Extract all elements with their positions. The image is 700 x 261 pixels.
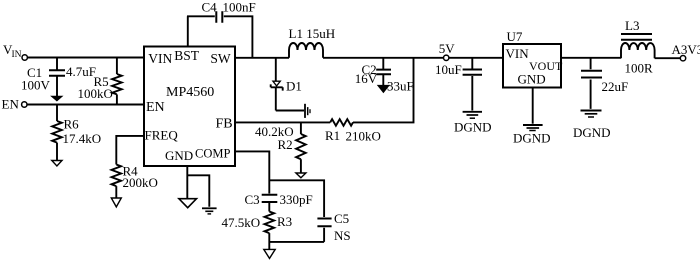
svg-text:L1 15uH: L1 15uH <box>289 26 336 41</box>
svg-text:100kO: 100kO <box>78 86 113 101</box>
ground arrow of R4 <box>111 198 121 207</box>
svg-text:DGND: DGND <box>513 130 551 145</box>
svg-text:33uF: 33uF <box>387 78 414 93</box>
svg-text:C4: C4 <box>202 0 218 15</box>
resistor R5 <box>112 58 122 105</box>
ground arrow of compensation net <box>264 249 275 258</box>
svg-text:100V: 100V <box>21 78 51 93</box>
ground (3-bar) of U7 <box>523 125 543 131</box>
wire R3 bottom <box>268 233 270 249</box>
svg-text:4.7uF: 4.7uF <box>66 64 96 79</box>
svg-text:EN: EN <box>146 100 165 115</box>
wire C4 to SW <box>224 16 253 58</box>
svg-text:SW: SW <box>210 51 231 66</box>
svg-text:DGND: DGND <box>573 125 611 140</box>
capacitor C4 <box>216 11 222 23</box>
wire BST riser <box>187 16 215 46</box>
svg-text:FB: FB <box>216 117 233 132</box>
svg-text:330pF: 330pF <box>280 192 313 207</box>
IC U1 MP4560 <box>144 47 235 167</box>
wire IC GND <box>187 167 209 207</box>
wire SW rail <box>235 57 289 59</box>
wire FB rail <box>235 58 414 123</box>
svg-text:22uF: 22uF <box>602 79 629 94</box>
resistor R4 <box>112 165 122 187</box>
node 5V terminal <box>439 41 456 60</box>
svg-text:L3: L3 <box>625 18 639 33</box>
IC U7 box <box>503 44 561 88</box>
wire R4 bottom <box>115 186 117 197</box>
svg-text:R1: R1 <box>325 128 340 143</box>
svg-text:C5: C5 <box>334 211 349 226</box>
resistor R3 <box>264 212 274 234</box>
svg-text:U7: U7 <box>507 29 523 44</box>
svg-text:100R: 100R <box>625 61 654 76</box>
svg-text:FREQ: FREQ <box>145 128 179 143</box>
svg-text:210kO: 210kO <box>346 128 381 143</box>
ground arrow of C2 <box>378 85 390 92</box>
svg-text:R3: R3 <box>277 214 292 229</box>
ground (3-bar) of 10uF <box>463 112 482 118</box>
svg-text:5V: 5V <box>439 41 456 56</box>
resistor R1 <box>330 119 353 126</box>
svg-text:17.4kO: 17.4kO <box>63 131 102 146</box>
svg-text:MP4560: MP4560 <box>166 85 214 100</box>
ground arrow of R2 <box>296 173 306 178</box>
capacitor C2 <box>376 58 391 86</box>
wire 5V to U7 <box>449 57 503 59</box>
svg-text:R6: R6 <box>64 117 80 132</box>
ground (sideways) of D1 <box>305 104 310 118</box>
ground arrow of R6 <box>52 161 62 167</box>
svg-text:C3: C3 <box>245 192 260 207</box>
node VIN terminal <box>3 42 27 60</box>
wire L3 to A3V3 <box>655 57 681 59</box>
resistor R2 <box>296 122 306 172</box>
node A3V3 terminal <box>672 42 700 61</box>
svg-text:DGND: DGND <box>454 119 492 134</box>
wire VOUT rail <box>561 57 621 59</box>
diode D1 (schottky) <box>271 58 283 111</box>
svg-text:100nF: 100nF <box>223 0 256 15</box>
svg-text:IN: IN <box>12 50 22 60</box>
svg-text:D1: D1 <box>286 79 302 94</box>
ground (3-bar) of IC <box>202 208 217 214</box>
wire FREQ <box>116 136 144 165</box>
inductor L3 (ferrite bead) <box>621 34 655 58</box>
ground (3-bar) of 22uF <box>581 111 602 118</box>
svg-text:BST: BST <box>174 48 200 63</box>
svg-text:GND: GND <box>165 148 193 163</box>
capacitor C3 <box>262 195 278 202</box>
svg-text:R2: R2 <box>278 137 293 152</box>
svg-text:47.5kO: 47.5kO <box>222 215 261 230</box>
svg-text:A3V3: A3V3 <box>672 42 700 57</box>
ground arrow of C1 <box>51 96 62 101</box>
svg-text:EN: EN <box>2 97 20 112</box>
capacitor C1 <box>49 58 65 97</box>
svg-text:COMP: COMP <box>195 147 230 161</box>
svg-text:GND: GND <box>518 71 546 86</box>
svg-text:VIN: VIN <box>148 51 172 66</box>
svg-text:10uF: 10uF <box>435 62 462 77</box>
svg-text:NS: NS <box>334 228 351 243</box>
wire VIN rail <box>28 57 145 59</box>
wire COMP <box>235 151 269 193</box>
capacitor 10uF <box>463 58 482 111</box>
wire EN rail <box>27 104 144 106</box>
capacitor C5 <box>317 219 331 227</box>
wire U7 GND <box>532 88 534 124</box>
node EN terminal <box>2 97 27 112</box>
svg-text:16V: 16V <box>355 71 378 86</box>
svg-text:VIN: VIN <box>506 46 530 61</box>
wire output rail to 5V <box>323 57 443 59</box>
svg-text:200kO: 200kO <box>123 175 158 190</box>
inductor L1 <box>289 43 323 58</box>
resistor R6 <box>52 105 62 161</box>
wire C5 branch <box>269 180 324 242</box>
capacitor 22uF <box>581 58 602 109</box>
ground arrow of IC GND <box>179 199 197 208</box>
wire C3 to R3 <box>268 203 270 212</box>
wire D1 to sideways ground <box>276 110 304 112</box>
